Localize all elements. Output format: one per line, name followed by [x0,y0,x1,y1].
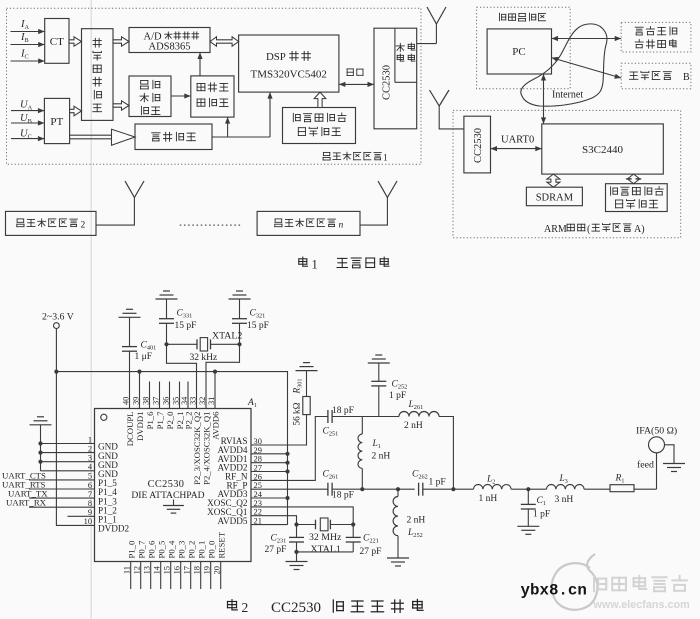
hollow double arrow S3C2440 - SDRAM [547,174,560,187]
wire XTAL2 left to pin 33 [167,344,197,408]
ground XTAL1 [296,552,298,561]
svg-text:DCOUPL: DCOUPL [125,412,135,447]
wire IA into CT [11,31,45,33]
internet cloud [521,24,607,106]
inductor L252 2nH (shunt to ground) [397,489,399,496]
svg-text:P1_0: P1_0 [126,540,136,559]
junction XTAL1 right [351,522,355,526]
svg-text:P0_5: P0_5 [156,541,166,559]
svg-text:UART0: UART0 [501,135,534,146]
double arrow PC - remote center [552,38,622,40]
capacitor C401 1uF on DCOUPL [119,316,141,318]
capacitor C262 1pF (series) [418,483,420,496]
inductor L2 1nH (series) [453,488,473,490]
block power and peripherals (node 1) [283,108,356,144]
svg-text:IFA(50 Ω): IFA(50 Ω) [636,425,677,436]
block S3C2440 [542,124,664,174]
svg-text:32 kHz: 32 kHz [190,353,218,363]
svg-text:S3C2440: S3C2440 [582,144,623,156]
svg-text:feed: feed [637,460,654,471]
hollow arrow PT to phase-selection [70,134,112,136]
chip bottom pin stubs [130,562,132,590]
svg-text:27 pF: 27 pF [360,547,382,557]
wire GND pin 4 [41,470,95,472]
svg-text:56 kΩ: 56 kΩ [291,402,301,425]
ARM module (sink node A) dashed box [453,110,681,237]
svg-text:P0_3: P0_3 [176,541,186,559]
svg-text:www.elecfans.com: www.elecfans.com [593,599,690,611]
svg-text:2 nH: 2 nH [407,516,426,526]
block PC [487,29,551,74]
svg-text:18 pF: 18 pF [332,490,354,500]
svg-text:18 pF: 18 pF [332,406,354,416]
sink node B dashed box [621,63,691,89]
antenna of node n [378,181,387,198]
svg-text:P0_4: P0_4 [166,540,176,559]
wire AVDD3 pin 24 [251,497,288,499]
capacitor C261 18pF (series) [327,483,329,496]
svg-text:2 nH: 2 nH [404,421,423,431]
capacitor C1 1pF (shunt to ground) [527,489,529,504]
junction GND pin3 [38,460,42,464]
caption figure 2 [228,600,238,610]
hollow double arrow A/D - DSP [210,37,239,46]
svg-text:15 pF: 15 pF [247,321,269,331]
svg-text:CC2530: CC2530 [271,600,321,616]
watermark swirl logo [552,554,598,610]
block zero-crossing detection circuit [129,76,171,117]
svg-text:PC: PC [512,46,525,58]
junction XTAL1 caps ground [294,550,298,554]
antenna of node 2 [125,181,134,198]
svg-text:1: 1 [383,153,388,163]
crystal XTAL2 32kHz [167,343,198,345]
svg-text:2: 2 [88,444,92,453]
double arrow PC - sink node B [552,58,622,78]
arrow up into DSP bottom [269,92,271,137]
svg-text:RESET: RESET [216,531,226,558]
svg-text:DIE ATTACHPAD: DIE ATTACHPAD [131,490,204,501]
svg-text:DVDD2: DVDD2 [98,524,130,534]
block data acquisition node 2 [6,211,97,235]
chip top pin stubs 38-34 (unconnected) [149,382,151,409]
svg-text:3: 3 [88,454,92,463]
svg-text:TMS320VC5402: TMS320VC5402 [250,69,326,81]
svg-text:6: 6 [88,481,92,490]
svg-text:2: 2 [242,600,249,615]
junction L252 top [396,487,400,491]
svg-text:1: 1 [312,258,318,272]
svg-text:7: 7 [88,490,92,499]
svg-text:A): A) [634,224,645,235]
block DSP chip TMS320VC5402 [239,35,339,92]
wire RF_N pin 26 up to matching network [251,417,328,481]
junction GND pin2 [38,451,42,455]
wire AVDD6 pin 31 stub [214,372,216,409]
arrow PLL up to A/D [199,53,201,76]
svg-text:P0_0: P0_0 [206,540,216,559]
svg-text:1 nH: 1 nH [479,494,498,504]
svg-text:Internet: Internet [552,90,583,101]
wire IB into CT [11,44,45,46]
junction XTAL2 left [164,342,168,346]
svg-text:n: n [339,220,344,230]
hollow arrow PT to signal-conditioning [70,106,82,116]
junction rail DVDD1 [137,370,141,374]
svg-text:P1_6: P1_6 [145,411,155,430]
ellipsis between nodes [180,224,242,226]
svg-text:32 MHz: 32 MHz [309,532,342,543]
junction AVDD1 [285,461,289,465]
svg-text:CT: CT [50,36,64,48]
junction XTAL2 right [237,342,241,346]
svg-text:AVDD5: AVDD5 [218,516,248,526]
antenna of node 1 [417,43,437,45]
arrow up into PLL bottom [227,117,229,137]
svg-text:1 pF: 1 pF [389,391,406,401]
wire DCOUPL pin 40 stub [129,351,131,408]
watermark site name [594,576,687,591]
arrow zero-cross to PLL [171,95,191,97]
junction AVDD4 [285,452,289,456]
capacitor C251 18pF (series) [327,410,329,423]
svg-text:CC2530: CC2530 [148,479,185,490]
inductor L3 3nH (series) [547,485,585,490]
wire XOSC_Q2 pin 23 to XTAL1 [251,507,353,525]
svg-text:15 pF: 15 pF [175,321,197,331]
wire UC into PT [11,138,44,140]
block PT (potential transformer) [44,98,69,143]
CC2530 chip body U1 [95,409,252,562]
local host computer dashed box [477,7,571,89]
junction XTAL1 left [294,522,298,526]
antenna of sink node [430,90,440,106]
junction AVDD2 [285,469,289,473]
hollow arrow signal-conditioning to zero-cross detect [113,101,129,110]
antenna ground [665,445,675,464]
junction L261 drop [451,487,455,491]
wire UA into PT [11,110,44,112]
svg-text:B: B [683,72,690,83]
wire XTAL2 right to pin 32 [206,344,240,408]
hollow arrow power to DSP [314,92,326,107]
svg-text:1 μF: 1 μF [135,352,153,362]
caption figure 1 [299,257,308,266]
block PLL frequency-multiplier circuit [191,76,234,117]
svg-text:P1_7: P1_7 [155,411,165,430]
block signal conditioning circuit [82,29,114,121]
remote monitoring center dashed box [621,22,691,52]
svg-text:2~3.6 V: 2~3.6 V [42,312,74,323]
ground for GND pins 1-4 [30,424,52,426]
junction L1 bottom [360,487,364,491]
ground inside chip (die attach pad) [173,500,175,506]
wire R1 to antenna feed [634,488,657,490]
svg-text:CC2530: CC2530 [473,128,484,163]
wire top line L1 to C252 to L261 [362,416,399,418]
supply terminal [54,323,60,329]
crystal XTAL1 32MHz [297,524,316,526]
svg-text:SDRAM: SDRAM [536,193,574,204]
capacitor C252 1pF (shunt to ground) [368,362,390,364]
wire AVDD1 pin 28 [251,462,288,464]
block SDRAM [526,187,582,206]
double arrow DSP - CC2530 [339,83,374,85]
wire phase-selection to PLL and DSP [212,136,270,138]
svg-text:UART_RX: UART_RX [6,498,47,508]
svg-text:ADS8365: ADS8365 [148,42,190,53]
antenna IFA(50) [649,437,665,453]
double arrow PC - S3C2440 via internet [543,74,545,124]
capacitor C321 15pF [229,298,251,300]
wire VDD vertical to DVDD2 pin 10 [56,329,94,526]
svg-text:8: 8 [88,499,92,508]
wire RF_P pin 25 main line [251,488,328,490]
svg-text:P0_7: P0_7 [136,540,146,559]
wire GND pin 2 [41,452,95,454]
svg-text:P0_6: P0_6 [146,540,156,559]
svg-text:XTAL2: XTAL2 [212,330,242,341]
block A/D converter ADS8365 [129,28,210,53]
wire DVDD1 pin 39 stub [139,372,141,409]
svg-text:P2_3/XOSC32K_Q2: P2_3/XOSC32K_Q2 [192,412,202,485]
hollow arrow CT to signal-conditioning [69,37,82,46]
wire AVDD5 pin 21 [251,524,288,526]
svg-text:P2_0: P2_0 [165,411,175,430]
block power and peripherals (ARM module) [606,184,668,212]
svg-text:PT: PT [50,116,63,128]
resistor R301 56k on RVIAS [296,370,318,372]
svg-text:P0_1: P0_1 [196,541,206,559]
block CC2530 with wireless transceiver (node 1) [374,28,417,129]
wire IC into CT [11,60,45,62]
svg-text:DVDD1: DVDD1 [135,412,145,441]
wire XOSC_Q1 pin 22 to XTAL1 [251,516,297,525]
capacitor C331 15pF [156,298,178,300]
junction VDD rail [54,370,58,374]
svg-text:1 pF: 1 pF [429,478,446,488]
inductor L1 2nH (shunt) [361,417,363,435]
hollow arrow signal-conditioning to A/D [113,37,129,46]
resistor R1 (series) [610,485,634,492]
svg-text:27 pF: 27 pF [265,545,287,555]
block data acquisition node n [257,211,360,235]
svg-text:P0_2: P0_2 [186,541,196,559]
wire AVDD2 pin 27 [251,471,288,473]
capacitor C231 27pF [296,525,298,538]
svg-text:ybx8.cn: ybx8.cn [521,582,587,600]
svg-text:DSP: DSP [266,51,286,63]
junction C1 top [526,487,530,491]
junction rail AVDD6 [213,370,217,374]
svg-text:3 nH: 3 nH [555,495,574,505]
svg-text:XTAL1: XTAL1 [311,544,341,555]
double arrow CC2530 - S3C2440 [491,148,542,150]
label serial port [347,69,363,76]
inductor L261 2nH (series) [399,412,439,417]
capacitor C221 27pF [352,525,354,538]
svg-text:2 nH: 2 nH [372,452,391,462]
svg-text:ARM: ARM [544,224,567,235]
block phase-selection circuit [135,124,212,150]
junction AVDD3 [285,496,289,500]
wire UB into PT [11,122,44,124]
svg-text:1 pF: 1 pF [533,510,550,520]
wire P1_1 pin 9 stub [68,515,95,517]
wire GND pin 1 [41,443,95,445]
figure 1: data acquisition node 1 dashed enclosure [7,8,422,164]
svg-text:AVDD6: AVDD6 [211,411,221,440]
wire GND pin 3 [41,461,95,463]
hollow double arrow S3C2440 - power [627,174,640,184]
svg-text:1: 1 [88,435,92,444]
wire VDD rail to AVDD branch [56,372,287,525]
svg-text:2: 2 [81,220,86,230]
wire AVDD4 pin 29 [251,453,288,455]
svg-text:CC2530: CC2530 [382,65,393,100]
block CC2530 (ARM module) [464,116,491,173]
junction GND pin1 [38,441,42,445]
block CT (current transformer) [45,19,69,64]
